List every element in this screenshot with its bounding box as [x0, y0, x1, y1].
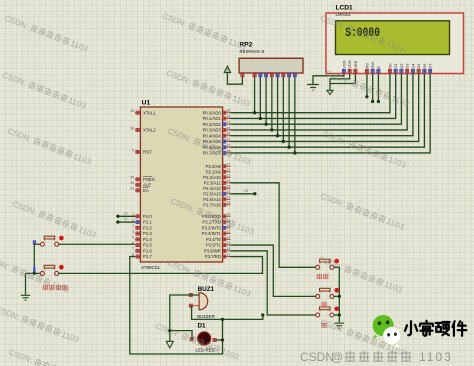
svg-text:P3.1/TXD: P3.1/TXD — [202, 220, 220, 225]
svg-text:25: 25 — [226, 185, 230, 189]
junction node P0.3 — [270, 128, 273, 131]
wire RP2 pin5 pull-up — [271, 77, 273, 130]
svg-text:27: 27 — [226, 196, 230, 200]
wire RP2 pin8 pull-up — [288, 77, 290, 147]
svg-text:D2: D2 — [399, 63, 404, 69]
svg-text:U1: U1 — [142, 100, 151, 107]
svg-text:3: 3 — [132, 224, 134, 228]
svg-text:@: @ — [331, 350, 343, 364]
wire RW — [372, 74, 374, 102]
LCD1 LM016L body — [326, 5, 464, 74]
label MINUS button (red) — [321, 322, 327, 328]
wire P0.6 to LCD D6 — [231, 74, 425, 148]
svg-text:EA: EA — [143, 188, 149, 193]
svg-text:38: 38 — [226, 115, 230, 119]
label left buttons (red) — [43, 285, 68, 291]
wire RP2 pin4 pull-up — [265, 77, 267, 124]
svg-text:33: 33 — [226, 144, 230, 148]
wire right buttons ground rail — [334, 267, 339, 322]
svg-text:CSDN: CSDN — [300, 350, 334, 364]
svg-text:5: 5 — [132, 236, 134, 240]
svg-text:23: 23 — [226, 174, 230, 178]
svg-text:P1.6: P1.6 — [143, 248, 152, 253]
svg-text:36: 36 — [226, 126, 230, 130]
LED pin squares — [190, 337, 193, 340]
power symbol VCC (up arrow) — [227, 73, 242, 85]
wire P0.5 to LCD D5 — [231, 74, 419, 142]
svg-text:34: 34 — [226, 138, 230, 142]
wire P0.0 to LCD D0 — [231, 74, 390, 113]
svg-text:P1.2: P1.2 — [143, 225, 152, 230]
svg-text:LED-RED: LED-RED — [196, 348, 215, 353]
resistor pack RP2 RESPACK-8 — [239, 42, 303, 74]
svg-text:P3.3/INT1: P3.3/INT1 — [202, 231, 222, 236]
svg-text:15: 15 — [226, 241, 230, 245]
svg-text:D6: D6 — [422, 63, 427, 69]
svg-text:P0.3/AD3: P0.3/AD3 — [203, 128, 222, 133]
wire RP2 pin6 pull-up — [277, 77, 279, 136]
ground arrow — [166, 341, 173, 348]
wire P3.5 to button PLUS — [231, 245, 316, 296]
wire left buttons common rail — [26, 244, 41, 294]
svg-text:P2.1/A9: P2.1/A9 — [206, 169, 222, 174]
svg-text:D5: D5 — [416, 63, 421, 69]
svg-text:P0.4/AD4: P0.4/AD4 — [203, 133, 222, 138]
LED D1 LED-RED — [196, 323, 215, 353]
label PLUS button (red) — [321, 302, 327, 308]
svg-text:D0: D0 — [387, 63, 392, 69]
junction node P0.7 — [293, 151, 296, 154]
svg-text:D1: D1 — [198, 323, 207, 330]
button SW-B — [40, 265, 64, 275]
wire P0.2 to LCD D2 — [231, 74, 402, 125]
wire E — [377, 74, 379, 102]
WeChat logo — [372, 315, 400, 347]
ground left buttons — [21, 295, 30, 300]
U1 right pins — [202, 109, 231, 259]
svg-text:30: 30 — [130, 181, 134, 185]
svg-text:RW: RW — [370, 62, 375, 69]
svg-text:7: 7 — [132, 247, 134, 251]
brand text strokes — [405, 321, 417, 335]
svg-text:11: 11 — [124, 217, 128, 221]
junction node P0.6 — [287, 146, 290, 149]
wire P0.4 to LCD D4 — [231, 74, 413, 136]
svg-text:10: 10 — [123, 211, 127, 215]
svg-text:D1: D1 — [393, 63, 398, 69]
svg-text:VDD: VDD — [347, 60, 352, 69]
wire RP2 pin7 pull-up — [282, 77, 284, 141]
svg-text:BUZ1: BUZ1 — [198, 286, 215, 293]
wire P1.0 stub node 10 — [118, 215, 135, 217]
svg-text:9: 9 — [132, 148, 134, 152]
svg-text:P3.6/WR: P3.6/WR — [204, 248, 221, 253]
junction node P0.0 — [253, 111, 256, 114]
svg-text:29: 29 — [130, 176, 134, 180]
svg-text:P3.5/T1: P3.5/T1 — [206, 243, 222, 248]
svg-text:D4: D4 — [410, 63, 415, 69]
svg-text:P2.5/A13: P2.5/A13 — [203, 191, 221, 196]
svg-text:39: 39 — [226, 109, 230, 113]
svg-text:35: 35 — [226, 132, 230, 136]
wire P2.3 to button SET — [231, 183, 316, 267]
wire LED cathode loop to P1.7 — [130, 257, 223, 354]
svg-text:BUZZER: BUZZER — [197, 314, 215, 319]
svg-text:D3: D3 — [405, 63, 410, 69]
power arrow down (VDD/VEE) — [330, 74, 350, 91]
wire RP2 pin3 pull-up — [259, 77, 261, 118]
buzzer BUZ1 — [192, 286, 215, 319]
svg-text:PSEN: PSEN — [143, 177, 155, 182]
svg-text:LM016L: LM016L — [336, 12, 352, 17]
svg-text:24: 24 — [226, 179, 230, 183]
svg-text:17: 17 — [226, 253, 230, 257]
button SET — [316, 259, 340, 269]
RP2 pins — [241, 74, 297, 77]
svg-text:P1.1: P1.1 — [143, 220, 152, 225]
wire RP2 pin9 pull-up — [294, 77, 296, 153]
svg-text:P1.7: P1.7 — [143, 254, 152, 259]
ground (VSS) — [313, 74, 344, 85]
svg-text:LCD1: LCD1 — [336, 5, 354, 12]
svg-text:14: 14 — [226, 236, 230, 240]
wire P2.5 stub node 25 — [231, 193, 255, 195]
svg-text:D7: D7 — [428, 63, 433, 69]
svg-text:19: 19 — [130, 109, 134, 113]
svg-text:P2.7/A15: P2.7/A15 — [203, 202, 221, 207]
svg-text:P0.2/AD2: P0.2/AD2 — [203, 122, 222, 127]
svg-text:P2.3/A11: P2.3/A11 — [204, 180, 222, 185]
svg-text:VEE: VEE — [353, 60, 358, 68]
svg-text:37: 37 — [226, 121, 230, 125]
svg-text:XTAL2: XTAL2 — [143, 128, 156, 133]
svg-text:P1.3: P1.3 — [143, 231, 152, 236]
wire button A to P1.5 — [59, 243, 135, 245]
svg-text:P2.4/A12: P2.4/A12 — [203, 186, 221, 191]
microcontroller U1 AT89C51 body — [140, 100, 222, 271]
svg-text:16: 16 — [226, 247, 230, 251]
svg-text:P1.0: P1.0 — [143, 214, 152, 219]
svg-text:25: 25 — [244, 189, 248, 193]
U1 left pins — [130, 109, 156, 259]
svg-text:VSS: VSS — [341, 60, 346, 68]
ground right buttons — [335, 323, 344, 328]
wire buzzer+ / LED anode / ground — [170, 295, 199, 341]
svg-text:P0.0/AD0: P0.0/AD0 — [203, 110, 222, 115]
svg-text:XTAL1: XTAL1 — [143, 110, 156, 115]
LCD1 pins — [341, 60, 432, 73]
button PLUS — [316, 288, 340, 298]
wire P0.1 to LCD D1 — [231, 74, 396, 119]
junction node P0.4 — [276, 134, 279, 137]
wire button B to P3.7 — [59, 257, 263, 274]
svg-text:P1.4: P1.4 — [143, 237, 152, 242]
svg-text:1103: 1103 — [419, 350, 453, 364]
buzzer pin squares — [189, 293, 192, 296]
wire RP2 pin2 pull-up — [254, 77, 256, 113]
wire RS — [366, 74, 368, 97]
svg-text:18: 18 — [130, 126, 134, 130]
svg-text:ALE: ALE — [143, 182, 151, 187]
junction node P0.5 — [282, 140, 285, 143]
svg-text:26: 26 — [226, 190, 230, 194]
svg-text:22: 22 — [226, 168, 230, 172]
svg-text:RST: RST — [143, 150, 152, 155]
wire P3.6 to button MINUS — [231, 251, 316, 315]
svg-text:AT89C51: AT89C51 — [141, 265, 161, 270]
blue state segment — [33, 241, 36, 244]
button MINUS — [316, 307, 340, 318]
svg-text:P2.2/A10: P2.2/A10 — [203, 175, 221, 180]
svg-text:13: 13 — [226, 230, 230, 234]
svg-text:P0.1/AD1: P0.1/AD1 — [203, 116, 222, 121]
svg-text:4: 4 — [132, 230, 134, 234]
wire P0.7 to LCD D7 — [231, 74, 431, 153]
svg-text:P2.6/A14: P2.6/A14 — [203, 197, 221, 202]
wire VEE — [330, 74, 355, 84]
svg-text:E: E — [376, 66, 381, 69]
svg-text:P3.4/T0: P3.4/T0 — [206, 237, 222, 242]
svg-text:28: 28 — [226, 201, 230, 205]
wire buzzer- to node — [192, 306, 263, 320]
svg-text:10: 10 — [226, 213, 230, 217]
label SET button (red) — [317, 274, 329, 280]
junction node P0.2 — [264, 123, 267, 126]
wire P0.3 to LCD D3 — [231, 74, 408, 130]
svg-text:P2.0/A8: P2.0/A8 — [206, 164, 222, 169]
svg-text:31: 31 — [130, 187, 134, 191]
button SW-A — [40, 236, 64, 247]
svg-text:P3.2/INT0: P3.2/INT0 — [202, 225, 222, 230]
svg-text:RS: RS — [364, 63, 369, 69]
svg-text:P3.7/RD: P3.7/RD — [205, 254, 221, 259]
wire P1.1 stub node 11 — [118, 221, 135, 223]
svg-text:21: 21 — [226, 163, 230, 167]
junction node P0.1 — [259, 117, 262, 120]
svg-text:P1.5: P1.5 — [143, 243, 152, 248]
